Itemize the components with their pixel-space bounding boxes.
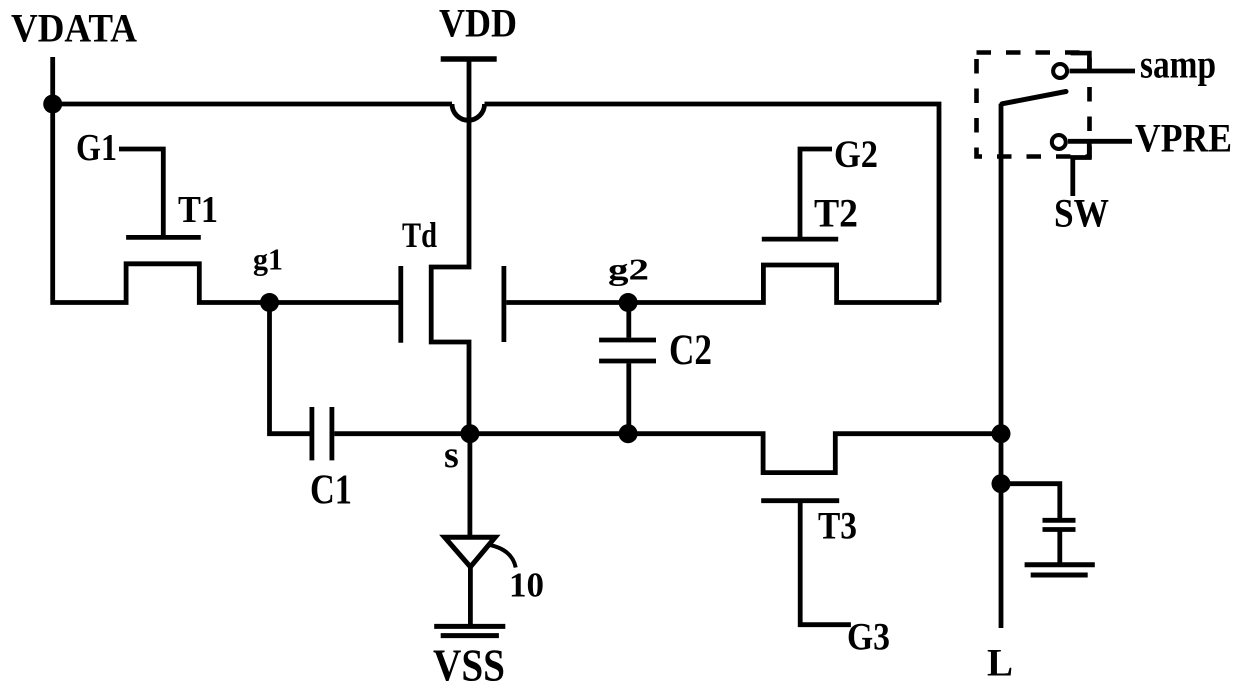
svg-text:VSS: VSS	[433, 641, 505, 688]
wire bottom rail s to T3 to L with T3 channel dip	[470, 434, 1001, 473]
diode 10 cathode lead	[468, 565, 473, 624]
wire g1 to Td left gate	[270, 300, 399, 305]
wire G2 gate lead	[800, 149, 832, 239]
svg-text:s: s	[444, 434, 459, 476]
node C2 bottom	[619, 424, 638, 443]
wire line L vertical	[999, 104, 1004, 628]
transistor Td left gate bar	[398, 266, 403, 343]
svg-text:g1: g1	[253, 242, 283, 277]
svg-text:G1: G1	[76, 127, 117, 169]
node L capacitor tap	[992, 474, 1011, 493]
leader to SW label	[1073, 141, 1090, 196]
transistor Td right gate bar	[501, 266, 506, 342]
node VDATA junction	[43, 95, 62, 114]
wire VPRE lead	[1068, 139, 1132, 144]
svg-text:C2: C2	[669, 327, 712, 374]
transistor T3 gate bar	[761, 498, 839, 503]
wire VDD feed and transistor Td channel	[431, 59, 469, 434]
capacitor C2 plates	[599, 340, 656, 361]
svg-text:Td: Td	[402, 215, 437, 255]
svg-text:T2: T2	[814, 191, 858, 236]
wire Td right gate to g2	[506, 300, 628, 305]
diode 10 anode lead	[467, 434, 472, 537]
svg-text:samp: samp	[1140, 42, 1216, 87]
svg-text:VPRE: VPRE	[1135, 116, 1232, 161]
svg-text:G3: G3	[847, 616, 890, 659]
wire VDATA column and T1 channel	[53, 104, 270, 303]
transistor T1 gate bar	[126, 235, 201, 240]
node g1	[260, 293, 279, 312]
capacitor C2 leads	[626, 303, 631, 434]
VDD terminal bar	[441, 56, 497, 62]
leader to 10 label	[488, 545, 516, 568]
storage capacitor plates	[1043, 520, 1076, 529]
ground below storage capacitor	[1025, 565, 1095, 575]
wire G1 gate lead	[119, 149, 163, 237]
svg-text:10: 10	[509, 566, 544, 605]
svg-text:L: L	[987, 642, 1013, 685]
wire capacitor branch	[1001, 484, 1060, 520]
switch SW dashed box	[977, 53, 1090, 157]
switch box corner tab	[1071, 53, 1090, 69]
samp terminal circle	[1053, 64, 1067, 78]
svg-text:T3: T3	[818, 505, 857, 548]
wire G3 gate lead	[800, 501, 851, 625]
wire C1 to node s	[334, 431, 470, 436]
capacitor C1 plates	[312, 407, 332, 460]
wire top rail right segment and right rail down to T2	[485, 104, 940, 303]
wire crossover hop at VDD	[452, 104, 485, 120]
diode 10 triangle	[445, 537, 496, 567]
wire top rail left segment	[53, 102, 452, 107]
svg-text:G2: G2	[834, 133, 878, 176]
storage capacitor lower lead	[1057, 530, 1062, 564]
svg-text:C1: C1	[310, 468, 352, 514]
svg-text:T1: T1	[178, 189, 218, 231]
transistor T2 gate bar	[762, 237, 838, 242]
VPRE terminal circle	[1052, 135, 1066, 149]
ground VSS	[434, 626, 505, 635]
node g2	[619, 293, 638, 312]
svg-text:SW: SW	[1054, 191, 1109, 236]
svg-text:VDD: VDD	[439, 1, 517, 46]
wire VDATA stub	[50, 57, 55, 104]
wire T2 source row with channel bump	[628, 265, 939, 303]
node s	[460, 424, 479, 443]
node L top	[992, 424, 1011, 443]
wire samp lead	[1070, 69, 1136, 74]
wire g1 down to C1	[270, 303, 310, 434]
svg-text:g2: g2	[608, 252, 649, 287]
switch arm	[1002, 92, 1066, 104]
svg-text:VDATA: VDATA	[11, 6, 137, 51]
